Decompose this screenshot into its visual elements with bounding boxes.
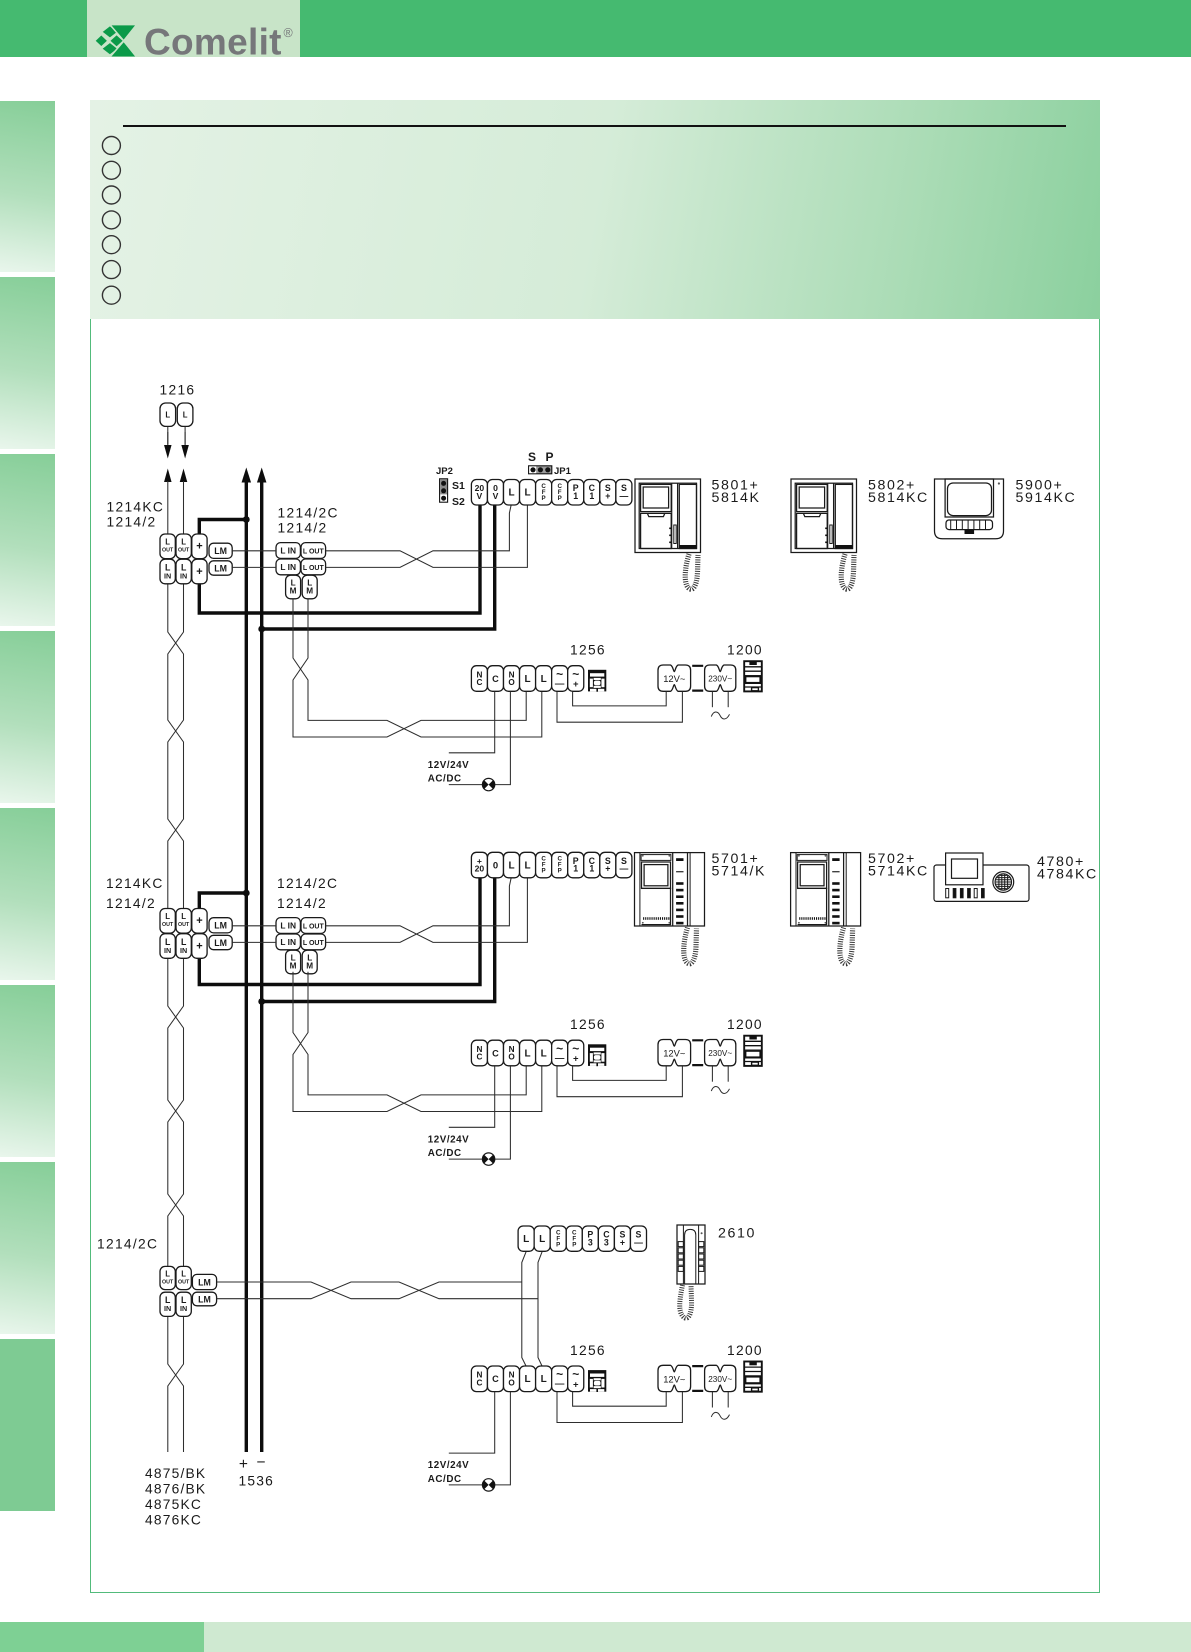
terminal distributor 1214KC row2 L IN b [176,934,191,959]
intercom unit 5702+5714KC [791,853,861,926]
terminal 1216 L b [177,403,193,426]
door panel 4780+4784KC [934,853,1029,901]
terminal relay3 ~- [552,1366,568,1392]
arrow riser L1 up [164,469,172,483]
terminal relay3 L [520,1366,536,1392]
svg-text:5914KC: 5914KC [1016,490,1077,506]
terminal relay1 L [520,666,536,692]
wire relay2 NO via lamp [449,1066,511,1159]
wire LM b to L IN b row1 [232,566,276,568]
svg-text:1214/2: 1214/2 [107,515,157,530]
terminal distributor 1214KC row2 L IN a [160,934,175,959]
junction riser- row1 [258,626,265,633]
wire bus - to 0V row1 [262,505,495,629]
svg-text:+: + [196,915,202,927]
wire 1216 Lb down [184,427,186,445]
intercom unit 5802+5814KC [791,479,857,553]
svg-text:+: + [239,1456,249,1473]
1256 relay icon (row 3) [588,1370,606,1392]
svg-text:+: + [620,1237,625,1247]
svg-text:S: S [528,450,536,464]
svg-text:+: + [573,1379,579,1390]
svg-text:O: O [508,678,515,687]
lamp relay2 supply lamp [482,1153,494,1165]
terminal relay3 NO [504,1366,520,1392]
svg-text:L OUT: L OUT [303,549,325,556]
handset cord 5701+5714/K [684,928,697,964]
svg-text:L OUT: L OUT [303,924,325,931]
wire relay1 ~- to 12V~ pin2 [557,692,682,723]
wire 230V~ pin1 (row 1) [711,692,713,708]
terminal dist3 L OUT a [160,1266,175,1289]
svg-text:L: L [525,488,531,499]
svg-text:1214/2: 1214/2 [278,521,328,536]
svg-text:+: + [573,1054,579,1065]
terminal relay2 C [487,1040,503,1066]
arrow riser + up [242,468,252,483]
svg-text:3: 3 [604,1237,609,1247]
svg-text:OUT: OUT [178,922,190,928]
wire bus + to 20V row1 [199,505,480,613]
terminal 12V~ (row 1) [658,665,691,691]
svg-text:5714/K: 5714/K [712,864,767,880]
svg-text:O: O [508,1378,515,1387]
svg-text:LM: LM [214,938,227,948]
terminal branch 1214/2C row1 L OUT b [301,559,326,575]
svg-text:1214KC: 1214KC [106,876,164,891]
wire LM a to L IN a row2 [232,925,276,927]
junction riser- row2 [258,998,265,1005]
junction riser+ row2 [243,890,250,897]
svg-text:1214/2: 1214/2 [106,896,156,911]
wire branch1 L OUT b to station1 L1 [326,505,512,568]
terminal station2 C1 [584,852,600,878]
svg-text:1214KC: 1214KC [107,500,165,515]
wire riser + bus [245,482,248,1452]
wire 1216 La down [167,427,169,445]
svg-text:AC/DC: AC/DC [428,1474,462,1485]
svg-text:1256: 1256 [570,643,606,658]
svg-text:L: L [539,1234,545,1245]
terminal station1 20V [471,480,487,506]
svg-text:2610: 2610 [718,1226,756,1242]
terminal 230V~ (row 1) [705,665,736,691]
terminal station2 P1 [568,852,584,878]
bullet circles [90,100,150,319]
wire relay1 NO via lamp [449,692,511,785]
svg-text:JP2: JP2 [436,466,453,477]
terminal station3 S- [630,1226,646,1251]
terminal station2 CFP [536,852,552,878]
svg-text:L: L [541,674,547,685]
svg-text:LM: LM [198,1277,211,1287]
svg-text:P: P [542,868,546,875]
svg-text:1: 1 [589,864,594,874]
svg-text:—: — [555,1053,565,1064]
terminal relay1 C [487,666,503,692]
terminal branch 1214/2C row1 L IN b [276,559,300,575]
terminal distributor 1214KC row1 +a [192,534,207,559]
svg-text:12V/24V: 12V/24V [428,1460,469,1471]
terminal station3 S+ [614,1226,630,1251]
svg-text:IN: IN [164,946,171,955]
dashed link (row 1) [692,666,703,691]
svg-text:L: L [165,1269,170,1278]
svg-text:—: — [619,864,628,874]
1256 relay icon (row 2) [588,1044,606,1066]
wire riser L pair tail conductor 2 [168,1316,184,1452]
wire relay3 ~+ to 12V~ pin1 [573,1392,667,1406]
mains sine symbol (row 2) [711,1087,729,1094]
terminal branch 1214/2C row2 L IN b [276,934,300,950]
lamp relay3 supply lamp [482,1479,494,1491]
terminal relay2 NO [504,1040,520,1066]
terminal station2 L [504,852,520,878]
terminal 12V~ (row 2) [658,1040,691,1066]
svg-text:LM: LM [198,1294,211,1304]
wire relay2 C to supply [449,1066,495,1127]
bottom bars [0,1622,204,1652]
dashed link (row 2) [692,1040,703,1065]
wire riser L1 seg0 [167,481,169,534]
terminal station1 L [504,480,520,506]
svg-text:S2: S2 [452,496,465,508]
svg-text:AC/DC: AC/DC [428,774,462,785]
svg-text:V: V [477,491,483,501]
svg-text:12V~: 12V~ [663,673,686,684]
svg-text:230V~: 230V~ [708,1049,732,1058]
svg-text:M: M [306,587,313,596]
door phone 2610 [677,1225,705,1284]
svg-text:20: 20 [475,864,485,874]
terminal branch 1214/2C row2 L/M b [302,950,317,974]
svg-text:L: L [181,538,186,547]
svg-text:1256: 1256 [570,1017,606,1032]
svg-text:5814KC: 5814KC [868,490,929,506]
svg-text:L: L [165,411,170,420]
svg-text:IN: IN [180,571,187,580]
wire 230V~ pin1 (row 3) [711,1392,713,1408]
svg-text:1200: 1200 [727,643,763,658]
wire branch1 L/M a to relay1 L2 [293,599,542,737]
wire station3 L2 to relay3 L2 [538,1251,542,1366]
svg-text:L IN: L IN [280,562,296,572]
wire riser - bus [260,482,263,1452]
junction riser+ row1 [243,516,250,523]
svg-text:—: — [555,678,565,689]
jumper JP1 [528,450,572,477]
svg-text:C: C [476,1053,482,1062]
terminal station1 CFP [552,480,568,506]
svg-text:+: + [196,566,202,578]
terminal 1216 L a [160,403,176,426]
lamp relay1 supply lamp [482,778,494,790]
logo box [87,0,300,57]
svg-text:L: L [181,912,186,921]
terminal branch 1214/2C row1 L OUT a [301,543,326,559]
terminal dist3 L IN b [176,1292,191,1316]
svg-text:1: 1 [589,491,594,501]
svg-text:V: V [493,491,499,501]
svg-text:1200: 1200 [727,1017,763,1032]
wire relay3 ~- to 12V~ pin2 [557,1392,682,1423]
wire 230V~ pin2 (row 3) [727,1392,729,1408]
svg-text:+: + [196,940,202,952]
svg-text:+: + [605,491,610,501]
terminal branch 1214/2C row1 L/M b [302,575,317,599]
wire branch2 L OUT b to station2 L1 [326,878,512,943]
svg-text:+: + [573,679,579,690]
svg-text:L OUT: L OUT [303,940,325,947]
svg-text:IN: IN [180,946,187,955]
terminal station3 CFP [566,1226,582,1251]
svg-text:L: L [541,1048,547,1059]
wire 230V~ pin1 (row 2) [711,1066,713,1082]
svg-text:230V~: 230V~ [708,1375,732,1384]
svg-text:1200: 1200 [727,1343,763,1358]
handset cord 5702+5714KC [840,928,853,964]
svg-text:IN: IN [164,571,171,580]
wire relay2 ~- to 12V~ pin2 [557,1066,682,1097]
svg-text:+: + [605,864,610,874]
terminal station3 L [534,1226,550,1251]
terminal dist3 LM a [192,1274,216,1289]
terminal station3 CFP [550,1226,566,1251]
terminal branch 1214/2C row1 L IN a [276,543,300,559]
1200 transformer icon (row 3) [744,1362,762,1392]
wire riser L pair tail conductor 1 [168,1316,184,1452]
svg-text:OUT: OUT [162,922,174,928]
svg-text:P: P [558,868,562,875]
svg-text:LM: LM [214,546,227,556]
svg-text:4876KC: 4876KC [145,1513,202,1528]
wire bus + to +20 row2 [199,878,480,985]
svg-text:1: 1 [573,491,578,501]
terminal distributor 1214KC row2 +b [192,934,207,959]
svg-text:1214/2: 1214/2 [277,896,327,911]
svg-text:4875/BK: 4875/BK [145,1466,206,1481]
wire riser L pair rows1-2 conductor 1 [168,584,184,909]
svg-text:—: — [634,1237,643,1247]
svg-text:AC/DC: AC/DC [428,1148,462,1159]
dashed link (row 3) [692,1366,703,1391]
header rule line [123,125,1066,128]
terminal station1 CFP [536,480,552,506]
wire riser L pair rows2-3 conductor 2 [168,958,184,1266]
header gradient panel [90,100,1100,319]
svg-text:—: — [619,491,628,501]
wire riser L2 seg0 [183,481,185,534]
svg-text:P: P [542,495,546,502]
wire riser L pair rows2-3 conductor 1 [168,958,184,1266]
svg-text:IN: IN [180,1304,187,1313]
svg-text:L IN: L IN [280,937,296,947]
svg-text:L: L [525,674,531,685]
svg-text:12V~: 12V~ [663,1373,686,1384]
terminal station3 P3 [582,1226,598,1251]
svg-text:L: L [541,1374,547,1385]
svg-text:OUT: OUT [178,548,190,554]
svg-text:L: L [183,411,188,420]
svg-text:L: L [523,1234,529,1245]
terminal 12V~ (row 3) [658,1365,691,1391]
terminal station1 C1 [584,480,600,506]
svg-text:P: P [572,1241,576,1248]
terminal station2 L [520,852,536,878]
terminal station1 S- [616,480,632,506]
terminal distributor 1214KC row1 L OUT b [176,534,191,559]
svg-text:L: L [181,1269,186,1278]
wire riser L pair rows1-2 conductor 2 [168,584,184,909]
arrow 1216 Lb [181,432,189,459]
svg-text:1536: 1536 [239,1474,275,1489]
svg-text:M: M [306,962,313,971]
mains sine symbol (row 3) [711,1412,729,1419]
arrow riser L2 up [180,469,188,483]
wire relay3 C to supply [449,1392,495,1453]
svg-text:4876/BK: 4876/BK [145,1482,206,1497]
terminal distributor 1214KC row2 LM a [209,918,232,933]
svg-text:L: L [525,860,531,871]
wire branch2 L/M b to relay2 L1 [293,972,526,1112]
terminal relay2 L [520,1040,536,1066]
svg-text:L: L [525,1374,531,1385]
terminal relay1 ~+ [568,666,584,692]
svg-text:L: L [508,488,514,499]
terminal distributor 1214KC row2 L OUT a [160,909,175,934]
svg-text:L IN: L IN [280,546,296,556]
content frame [90,100,1100,1593]
handset cord 5801+5814K [685,554,698,589]
wire branch2 L OUT a to station2 L2 [326,878,528,943]
terminal distributor 1214KC row1 +b [192,559,207,584]
svg-text:−: − [256,1454,266,1471]
terminal branch 1214/2C row2 L OUT a [301,918,326,934]
1200 transformer icon (row 1) [744,661,762,691]
terminal station1 0V [487,480,503,506]
svg-text:LM: LM [214,921,227,931]
intercom unit 5801+5814K [635,479,701,553]
svg-text:12V/24V: 12V/24V [428,760,469,771]
terminal station3 C3 [598,1226,614,1251]
svg-text:P: P [558,495,562,502]
terminal dist3 L OUT b [176,1266,191,1289]
wire relay2 ~+ to 12V~ pin1 [573,1066,667,1080]
terminal station2 0 [487,852,503,878]
wire branch1 L/M b to relay1 L1 [293,599,526,737]
svg-text:L: L [165,912,170,921]
svg-text:O: O [508,1053,515,1062]
Comelit logo [87,0,300,57]
terminal relay2 ~- [552,1040,568,1066]
svg-text:S1: S1 [452,480,465,492]
svg-text:4875KC: 4875KC [145,1497,202,1512]
wire LM b to L IN b row2 [232,941,276,943]
svg-text:C: C [492,1374,499,1384]
svg-text:LM: LM [214,563,227,573]
svg-text:L: L [525,1048,531,1059]
svg-text:1: 1 [573,864,578,874]
wire dist3 LM b to station3 L2 tap [217,1282,538,1299]
handset cord 2610 [680,1285,692,1318]
svg-text:3: 3 [588,1237,593,1247]
svg-text:12V~: 12V~ [663,1048,686,1059]
terminal station3 L [518,1226,534,1251]
terminal station2 S- [616,852,632,878]
svg-text:1214/2C: 1214/2C [277,876,338,891]
svg-text:230V~: 230V~ [708,675,732,684]
svg-text:5714KC: 5714KC [868,864,929,880]
terminal relay2 NC [471,1040,487,1066]
wire relay1 C to supply [449,692,495,753]
svg-text:C: C [476,678,482,687]
wire relay3 NO via lamp [449,1392,511,1485]
svg-text:M: M [290,587,297,596]
svg-text:P: P [556,1241,560,1248]
svg-text:OUT: OUT [162,548,174,554]
wire branch2 L/M a to relay2 L2 [293,972,542,1112]
wire LM a to L IN a row1 [232,550,276,552]
svg-text:OUT: OUT [162,1279,174,1285]
wire bus - to 0 row2 [262,878,495,1002]
1256 relay icon (row 1) [588,670,606,692]
terminal relay1 L [536,666,552,692]
terminal distributor 1214KC row1 L IN a [160,559,175,584]
monitor unit 5900+5914KC [935,479,1004,539]
jumper JP2 [436,466,465,508]
terminal relay2 ~+ [568,1040,584,1066]
svg-text:OUT: OUT [178,1279,190,1285]
svg-text:L IN: L IN [280,921,296,931]
terminal 230V~ (row 3) [705,1365,736,1391]
svg-text:JP1: JP1 [554,466,572,477]
terminal station2 S+ [600,852,616,878]
wire station3 L1 to relay3 L1 [522,1251,526,1366]
svg-text:C: C [492,674,499,684]
wire 230V~ pin2 (row 2) [727,1066,729,1082]
terminal distributor 1214KC row1 L OUT a [160,534,175,559]
terminal distributor 1214KC row2 +a [192,909,207,934]
terminal relay3 C [487,1366,503,1392]
intercom unit 5701+5714/K [635,853,705,926]
svg-text:IN: IN [164,1304,171,1313]
terminal station1 S+ [600,480,616,506]
terminal branch 1214/2C row2 L IN a [276,918,300,934]
wire 230V~ pin2 (row 1) [727,692,729,708]
terminal relay1 NO [504,666,520,692]
terminal dist3 L IN a [160,1292,175,1316]
arrow riser - up [257,468,267,483]
terminal relay3 ~+ [568,1366,584,1392]
sidebar gradient blocks [0,101,55,272]
svg-text:0: 0 [493,860,498,871]
terminal branch 1214/2C row1 L/M a [286,575,301,599]
1200 transformer icon (row 2) [744,1036,762,1066]
svg-text:L OUT: L OUT [303,565,325,572]
terminal station2 +20 [471,852,487,878]
terminal relay1 NC [471,666,487,692]
arrow 1216 La [164,432,172,459]
terminal relay1 ~- [552,666,568,692]
svg-text:—: — [555,1379,565,1390]
terminal distributor 1214KC row2 L OUT b [176,909,191,934]
svg-text:12V/24V: 12V/24V [428,1134,469,1145]
svg-text:4784KC: 4784KC [1037,867,1098,883]
handset cord 5802+5814KC [841,554,854,589]
terminal relay3 L [536,1366,552,1392]
terminal branch 1214/2C row2 L OUT b [301,934,326,950]
svg-text:M: M [290,962,297,971]
